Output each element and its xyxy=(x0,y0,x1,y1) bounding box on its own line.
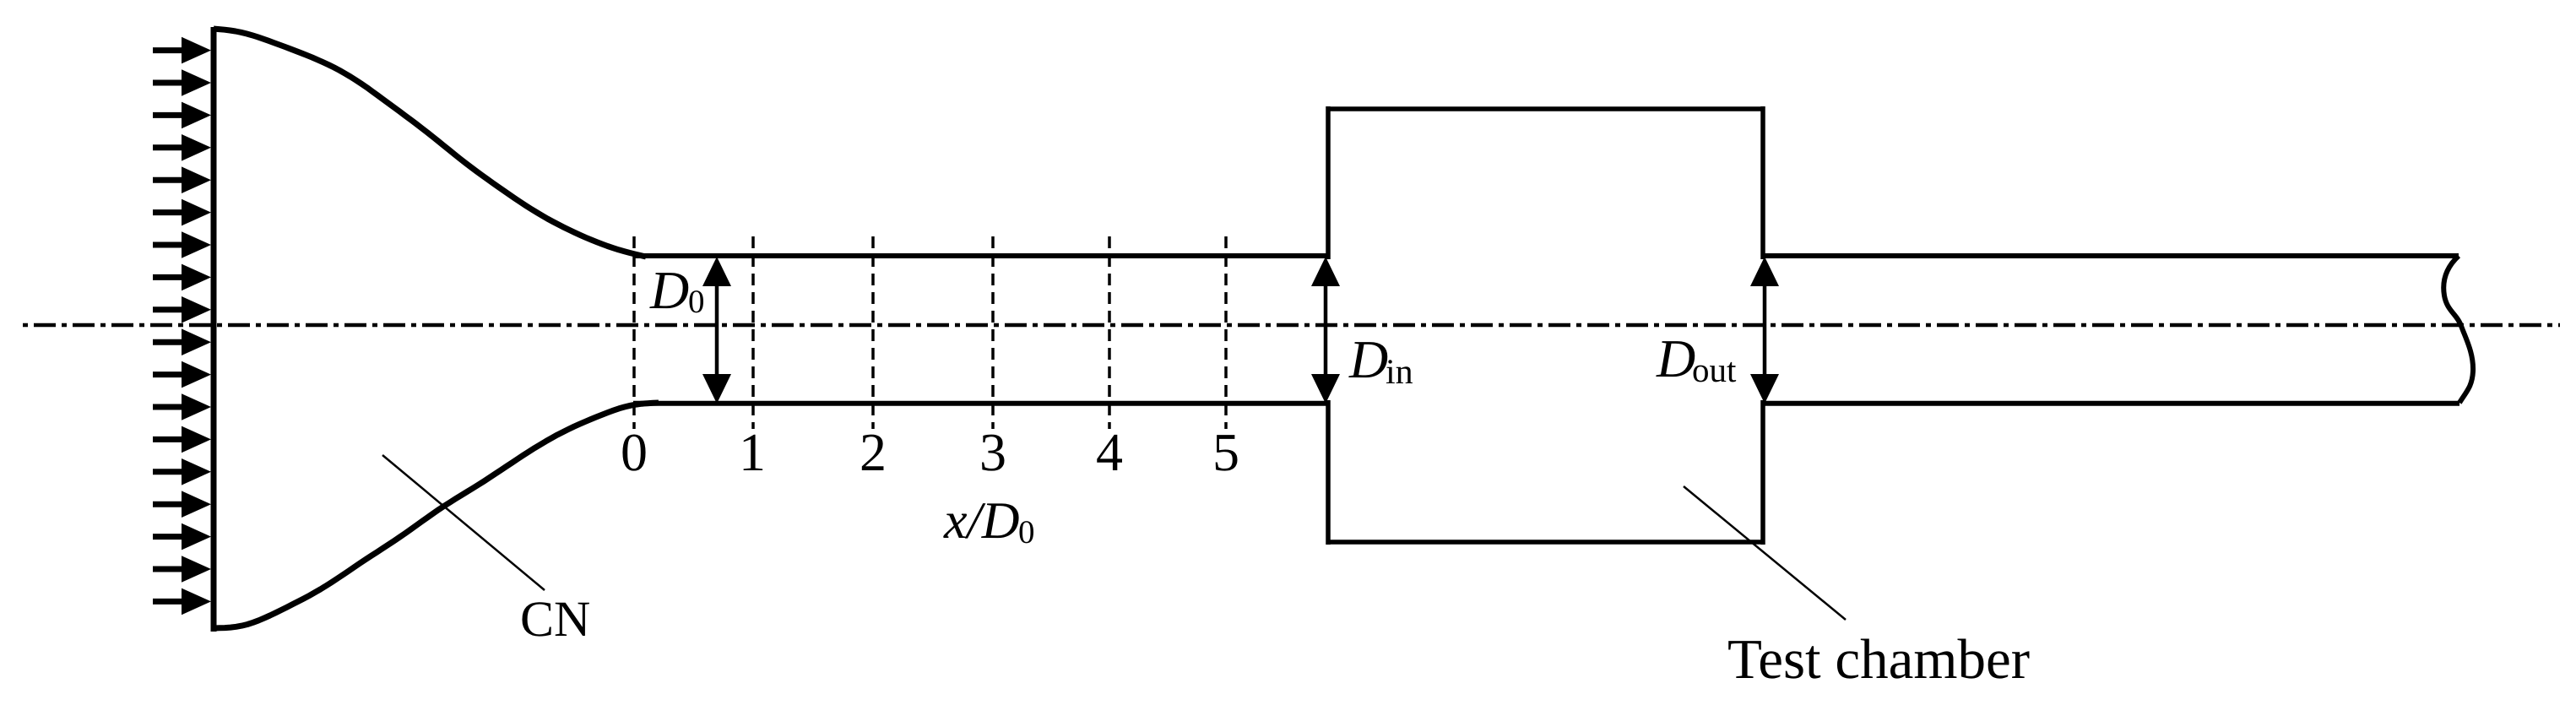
test chamber box bottom wall xyxy=(1328,540,1763,545)
svg-text:0: 0 xyxy=(621,422,648,482)
inlet flow arrow 12 xyxy=(153,393,211,420)
Din dimension arrow xyxy=(1311,257,1340,404)
inlet flow arrow 7 xyxy=(153,231,211,258)
svg-text:Test chamber: Test chamber xyxy=(1727,628,2030,691)
CN leader line xyxy=(382,455,545,590)
inlet flow arrow 10 xyxy=(153,328,211,355)
inlet flow arrow 13 xyxy=(153,426,211,453)
inlet flow arrow 5 xyxy=(153,166,211,193)
inlet flow arrow 17 xyxy=(153,556,211,583)
test chamber box top wall xyxy=(1328,106,1763,111)
inlet flow arrow 8 xyxy=(153,264,211,291)
Dout label xyxy=(1656,328,1737,389)
station dashed line 2 xyxy=(871,236,875,429)
svg-text:2: 2 xyxy=(860,422,887,482)
pipe top wall (nozzle to chamber) xyxy=(633,253,1328,258)
inlet flow arrow 16 xyxy=(153,523,211,550)
inlet plane vertical line xyxy=(211,27,217,632)
inlet flow arrow 9 xyxy=(153,296,211,323)
inlet flow arrow 3 xyxy=(153,102,211,129)
svg-text:D: D xyxy=(1656,328,1695,388)
nozzle top contour xyxy=(214,29,646,257)
pipe bottom wall (nozzle to chamber) xyxy=(633,401,1328,406)
nozzle bottom contour xyxy=(214,403,659,628)
svg-text:out: out xyxy=(1692,350,1737,389)
D0 label xyxy=(649,260,705,320)
test chamber leader line xyxy=(1684,486,1846,620)
x/D0 axis label xyxy=(943,492,1035,550)
test chamber box right wall upper segment xyxy=(1760,106,1765,259)
svg-text:CN: CN xyxy=(520,591,590,647)
inlet flow arrow 18 xyxy=(153,588,211,616)
Dout dimension arrow xyxy=(1750,257,1779,404)
svg-text:x/D: x/D xyxy=(943,492,1020,550)
inlet flow arrow 2 xyxy=(153,69,211,96)
inlet flow arrow 14 xyxy=(153,458,211,485)
svg-text:0: 0 xyxy=(1018,514,1035,550)
station dashed line 4 xyxy=(1108,236,1111,429)
outlet pipe top wall xyxy=(1763,253,2459,258)
inlet flow arrow 11 xyxy=(153,361,211,388)
centerline axis (dash-dot) xyxy=(23,323,2560,328)
station dashed line 5 xyxy=(1224,236,1228,429)
svg-text:3: 3 xyxy=(979,422,1006,482)
station dashed line 3 xyxy=(991,236,995,429)
inlet flow arrow 1 xyxy=(153,37,211,64)
outlet pipe bottom wall xyxy=(1763,401,2459,406)
svg-text:5: 5 xyxy=(1212,422,1239,482)
inlet flow arrow 6 xyxy=(153,199,211,226)
svg-text:0: 0 xyxy=(688,284,705,320)
station dashed line 1 xyxy=(751,236,755,429)
station dashed line 0 xyxy=(632,236,636,429)
svg-text:D: D xyxy=(1348,329,1388,389)
svg-text:1: 1 xyxy=(739,422,766,482)
test chamber box left wall lower segment xyxy=(1326,400,1331,545)
pipe break squiggle xyxy=(2443,256,2473,403)
D0 dimension arrow xyxy=(702,257,731,404)
test chamber box right wall lower segment xyxy=(1760,400,1765,545)
svg-text:4: 4 xyxy=(1096,422,1123,482)
inlet flow arrow 4 xyxy=(153,134,211,161)
Din label xyxy=(1348,329,1413,392)
test chamber box left wall upper segment xyxy=(1326,106,1331,259)
inlet flow arrow 15 xyxy=(153,491,211,518)
svg-text:D: D xyxy=(649,260,689,320)
svg-text:in: in xyxy=(1386,353,1413,392)
